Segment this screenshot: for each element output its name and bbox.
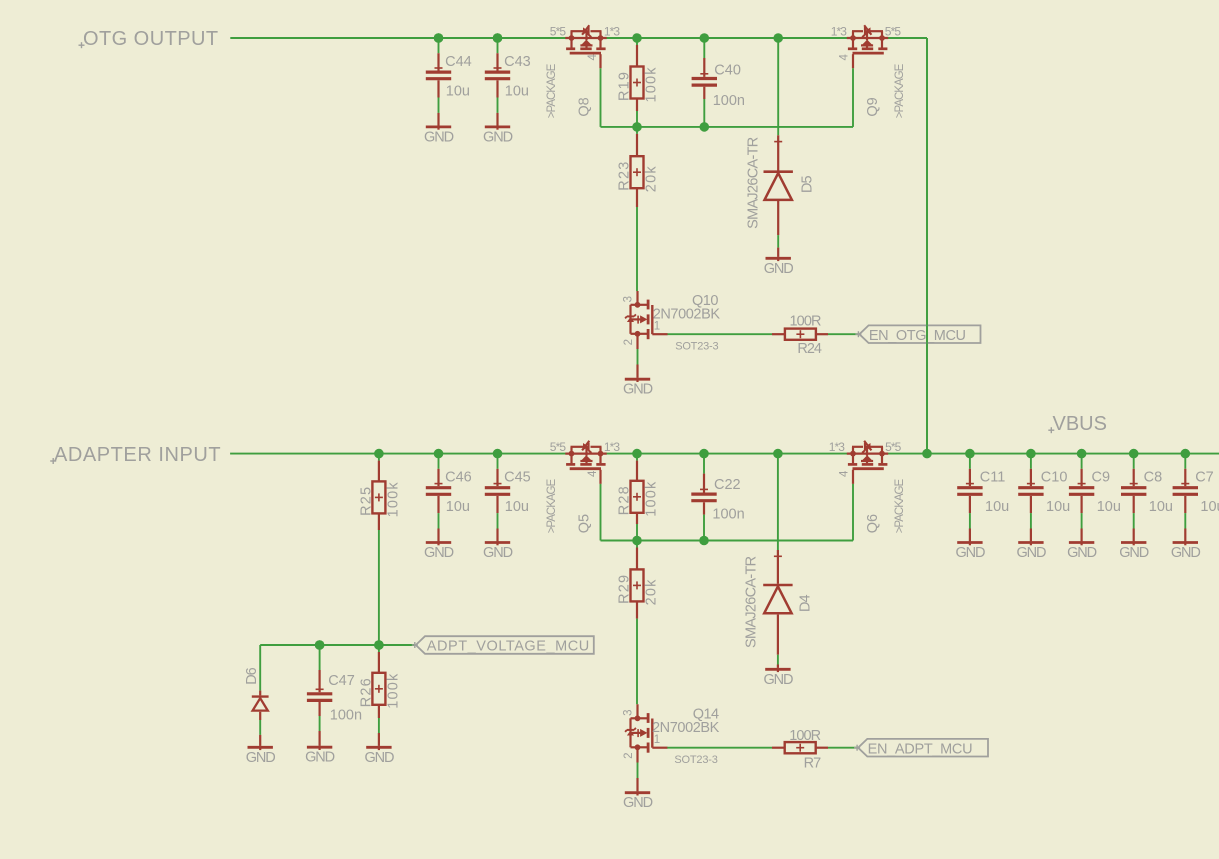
svg-text:4: 4 [838, 470, 850, 477]
svg-text:3: 3 [623, 295, 635, 302]
svg-text:GND: GND [364, 750, 394, 766]
svg-text:4: 4 [838, 54, 850, 61]
svg-text:4: 4 [587, 470, 599, 477]
svg-text:GND: GND [424, 545, 454, 561]
svg-text:100k: 100k [385, 481, 401, 517]
svg-text:GND: GND [305, 750, 335, 766]
svg-text:2N7002BK: 2N7002BK [653, 306, 721, 322]
svg-text:100k: 100k [385, 673, 401, 709]
svg-text:10u: 10u [1149, 499, 1173, 515]
svg-text:5*5: 5*5 [885, 24, 902, 38]
svg-text:10u: 10u [1200, 499, 1219, 515]
svg-text:>PACKAGE: >PACKAGE [546, 63, 558, 118]
svg-text:C22: C22 [714, 477, 741, 493]
svg-text:R24: R24 [797, 341, 822, 357]
svg-text:R28: R28 [617, 485, 633, 515]
svg-text:100k: 100k [644, 481, 660, 517]
svg-text:100n: 100n [713, 93, 745, 109]
svg-text:10u: 10u [1046, 499, 1070, 515]
svg-text:100R: 100R [789, 728, 820, 744]
svg-text:Q9: Q9 [865, 97, 881, 116]
svg-text:GND: GND [623, 382, 653, 398]
svg-text:5*5: 5*5 [885, 440, 902, 454]
svg-text:SMAJ26CA-TR: SMAJ26CA-TR [744, 556, 760, 648]
svg-text:GND: GND [246, 750, 276, 766]
svg-text:10u: 10u [446, 83, 470, 99]
svg-text:4: 4 [587, 54, 599, 61]
svg-text:D6: D6 [244, 667, 260, 684]
svg-text:GND: GND [763, 672, 793, 688]
svg-text:10u: 10u [505, 83, 529, 99]
svg-text:C46: C46 [445, 469, 472, 485]
svg-text:10u: 10u [446, 499, 470, 515]
svg-text:C47: C47 [328, 673, 355, 689]
svg-text:1*3: 1*3 [829, 440, 846, 454]
svg-text:20k: 20k [644, 578, 660, 605]
svg-text:GND: GND [1016, 545, 1046, 561]
svg-text:1*3: 1*3 [831, 24, 848, 38]
svg-text:D5: D5 [800, 176, 816, 193]
svg-text:GND: GND [623, 795, 653, 811]
svg-text:R25: R25 [358, 486, 374, 516]
svg-text:100n: 100n [712, 507, 744, 523]
svg-text:10u: 10u [505, 499, 529, 515]
svg-text:GND: GND [483, 129, 513, 145]
svg-text:VBUS: VBUS [1053, 413, 1107, 435]
svg-text:1*3: 1*3 [604, 24, 621, 38]
svg-text:R29: R29 [617, 574, 633, 604]
svg-text:>PACKAGE: >PACKAGE [546, 479, 558, 534]
svg-text:EN_OTG_MCU: EN_OTG_MCU [869, 328, 966, 344]
svg-text:GND: GND [1171, 545, 1201, 561]
svg-text:ADPT_VOLTAGE_MCU: ADPT_VOLTAGE_MCU [427, 639, 590, 655]
svg-text:SMAJ26CA-TR: SMAJ26CA-TR [746, 137, 762, 229]
svg-text:>PACKAGE: >PACKAGE [894, 479, 906, 534]
svg-text:R26: R26 [358, 677, 374, 707]
svg-text:Q5: Q5 [577, 514, 593, 533]
svg-text:100n: 100n [330, 708, 362, 724]
svg-text:C8: C8 [1144, 469, 1163, 485]
svg-text:C44: C44 [445, 54, 472, 70]
svg-text:C45: C45 [504, 469, 531, 485]
svg-text:>PACKAGE: >PACKAGE [894, 63, 906, 118]
svg-text:1*3: 1*3 [604, 440, 621, 454]
svg-text:5*5: 5*5 [550, 440, 567, 454]
svg-text:100k: 100k [644, 66, 660, 102]
svg-text:GND: GND [1119, 545, 1149, 561]
svg-text:GND: GND [483, 545, 513, 561]
svg-text:100R: 100R [790, 313, 821, 329]
svg-text:20k: 20k [644, 165, 660, 192]
svg-text:SOT23-3: SOT23-3 [675, 341, 718, 353]
svg-text:OTG OUTPUT: OTG OUTPUT [83, 28, 219, 50]
svg-text:Q6: Q6 [865, 514, 881, 533]
svg-text:R7: R7 [804, 756, 821, 772]
svg-text:D4: D4 [798, 595, 814, 612]
svg-text:2N7002BK: 2N7002BK [652, 720, 720, 736]
svg-text:GND: GND [1067, 545, 1097, 561]
svg-text:3: 3 [623, 709, 635, 716]
svg-text:2: 2 [623, 338, 635, 345]
svg-text:C10: C10 [1041, 469, 1068, 485]
svg-text:R19: R19 [617, 71, 633, 101]
svg-text:GND: GND [424, 129, 454, 145]
svg-text:GND: GND [764, 261, 794, 277]
svg-text:10u: 10u [1097, 499, 1121, 515]
svg-text:C11: C11 [980, 469, 1006, 485]
svg-text:10u: 10u [985, 499, 1009, 515]
svg-text:C40: C40 [714, 63, 741, 79]
svg-text:GND: GND [955, 545, 985, 561]
svg-text:C9: C9 [1092, 469, 1111, 485]
svg-text:2: 2 [623, 752, 635, 759]
svg-text:EN_ADPT_MCU: EN_ADPT_MCU [868, 741, 973, 757]
svg-text:C43: C43 [504, 54, 531, 70]
svg-text:ADAPTER INPUT: ADAPTER INPUT [54, 444, 221, 466]
svg-text:Q8: Q8 [577, 97, 593, 116]
svg-text:C7: C7 [1195, 469, 1214, 485]
svg-text:R23: R23 [617, 160, 633, 190]
svg-text:SOT23-3: SOT23-3 [674, 754, 717, 766]
svg-text:5*5: 5*5 [550, 24, 567, 38]
